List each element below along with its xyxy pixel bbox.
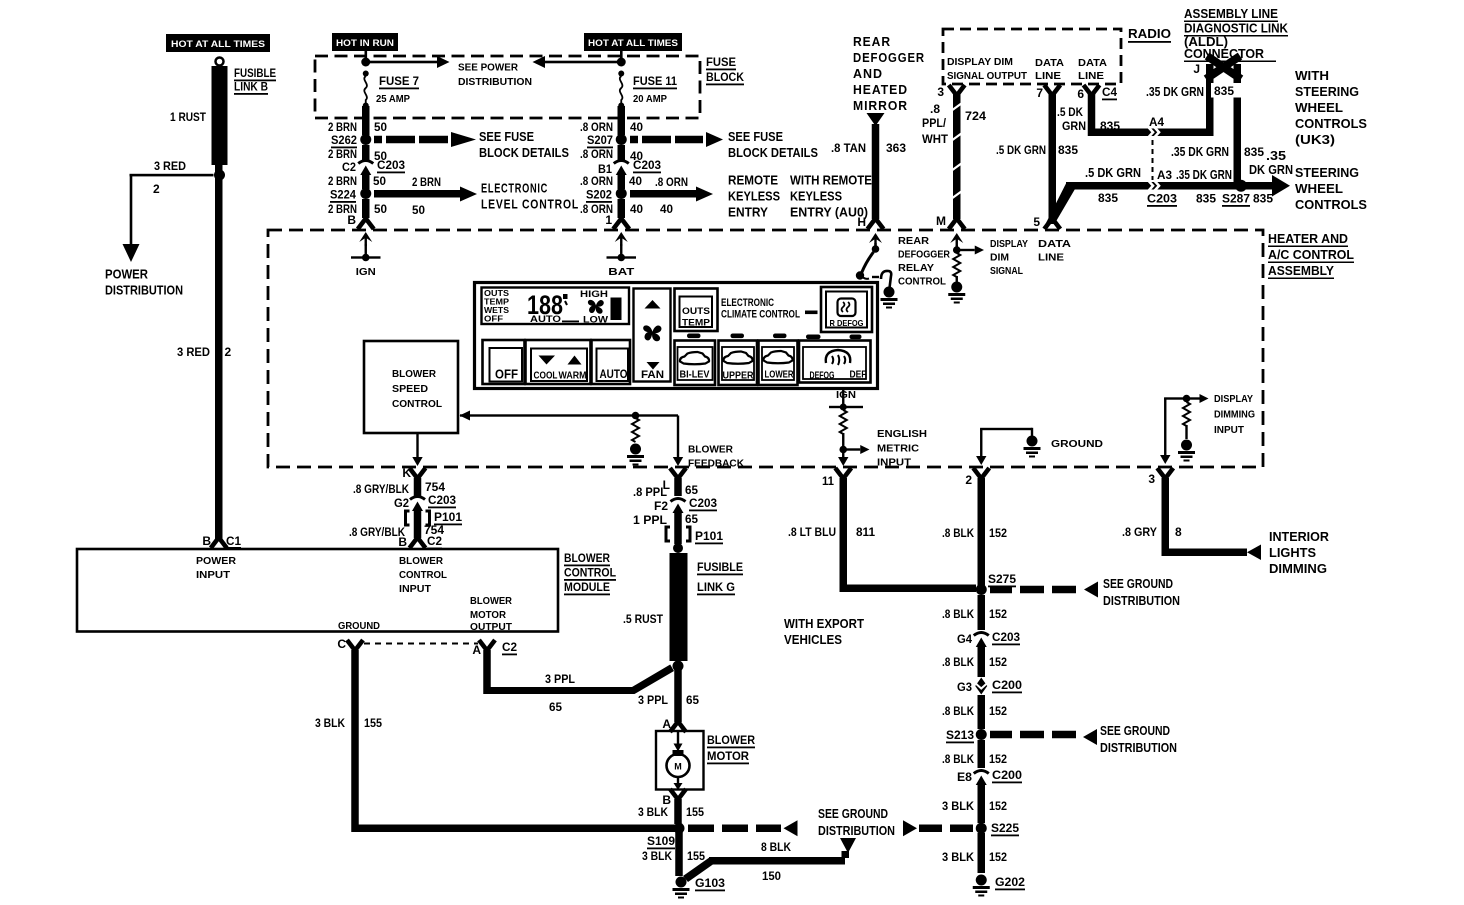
resistor english metric bbox=[840, 410, 847, 434]
svg-text:40: 40 bbox=[660, 202, 673, 216]
OFF button bbox=[483, 340, 525, 384]
terminal arrow M inside bbox=[950, 233, 963, 247]
svg-text:754: 754 bbox=[425, 480, 445, 494]
svg-text:20 AMP: 20 AMP bbox=[633, 93, 667, 105]
ALDL right leg bbox=[1234, 64, 1242, 183]
wire down to power distribution arrow bbox=[130, 175, 133, 244]
dashed wire to see ground distribution (left side) bbox=[688, 820, 798, 836]
svg-text:2: 2 bbox=[153, 182, 160, 196]
svg-text:3 BLK: 3 BLK bbox=[315, 716, 345, 730]
display dimming input lead bbox=[1164, 398, 1166, 455]
svg-text:ENGLISH: ENGLISH bbox=[877, 428, 927, 440]
wire down to pin 11 bbox=[842, 452, 844, 459]
wire panel to english metric bbox=[842, 389, 844, 406]
svg-text:A3: A3 bbox=[1157, 168, 1172, 182]
arrow to display dim signal bbox=[957, 249, 975, 251]
svg-text:BLOWER: BLOWER bbox=[399, 555, 443, 567]
AUTO button bbox=[592, 340, 631, 384]
fuse F11 symbol bbox=[618, 71, 624, 109]
svg-text:.8 GRY: .8 GRY bbox=[1122, 525, 1157, 539]
svg-text:SEE FUSE: SEE FUSE bbox=[728, 129, 783, 144]
svg-text:152: 152 bbox=[989, 655, 1007, 669]
svg-text:C203: C203 bbox=[689, 496, 717, 510]
svg-text:G4: G4 bbox=[957, 632, 972, 646]
diagonal from G103 wire to 150 wire bbox=[683, 857, 715, 882]
svg-text:.8 LT BLU: .8 LT BLU bbox=[788, 525, 836, 539]
label 835 white box on right leg bbox=[1211, 83, 1244, 98]
ALDL connector X symbol bbox=[1206, 56, 1241, 79]
svg-text:COOL: COOL bbox=[534, 371, 558, 382]
wire motor to S109 bbox=[674, 799, 682, 824]
junction S202 bbox=[616, 188, 627, 199]
svg-text:BLOWER: BLOWER bbox=[470, 595, 512, 607]
svg-text:50: 50 bbox=[374, 202, 387, 216]
svg-text:BLOWER: BLOWER bbox=[392, 368, 436, 380]
svg-text:FUSE 11: FUSE 11 bbox=[633, 74, 677, 88]
wire G3 to S213 bbox=[978, 695, 986, 729]
terminal arrow BAT bbox=[615, 232, 628, 246]
arrow out of motor bbox=[677, 777, 679, 786]
svg-text:GROUND: GROUND bbox=[338, 620, 380, 632]
arrowhead to steering wheel controls bbox=[1272, 175, 1290, 197]
wire S275 to G4 bbox=[978, 595, 986, 630]
svg-text:SEE GROUND: SEE GROUND bbox=[1103, 576, 1173, 591]
wire 11 down and right to S275 bbox=[840, 478, 977, 592]
svg-text:METRIC: METRIC bbox=[877, 443, 919, 455]
svg-text:3: 3 bbox=[937, 85, 944, 99]
svg-text:SIGNAL: SIGNAL bbox=[990, 265, 1023, 277]
svg-text:HIGH: HIGH bbox=[580, 289, 608, 300]
svg-text:INPUT: INPUT bbox=[196, 569, 231, 581]
blower speed control box bbox=[364, 341, 458, 433]
arrow speed control down to K bbox=[416, 433, 418, 458]
svg-text:DIMMING: DIMMING bbox=[1214, 409, 1255, 421]
wire bbox=[674, 512, 682, 544]
label ELECTRONIC CLIMATE CONTROL bbox=[721, 297, 818, 321]
connector G3 C200 bbox=[975, 678, 987, 695]
radio dashed box bbox=[943, 29, 1121, 84]
label DATA LINE inside box bbox=[1038, 238, 1071, 264]
wire data line 6 down then right to ALDL bbox=[1088, 94, 1206, 136]
svg-text:835: 835 bbox=[1058, 143, 1078, 157]
svg-text:.8 BLK: .8 BLK bbox=[942, 655, 974, 669]
display fan flower bbox=[588, 300, 604, 314]
svg-text:SIGNAL OUTPUT: SIGNAL OUTPUT bbox=[947, 70, 1028, 82]
svg-text:C4: C4 bbox=[1102, 85, 1117, 99]
svg-text:1 PPL: 1 PPL bbox=[633, 513, 667, 527]
labels .8 PPL/ WHT bbox=[922, 102, 949, 146]
svg-text:DATA: DATA bbox=[1078, 57, 1107, 69]
svg-text:835: 835 bbox=[1100, 119, 1120, 133]
svg-text:DISPLAY: DISPLAY bbox=[990, 238, 1028, 250]
svg-text:AUTO: AUTO bbox=[530, 314, 561, 325]
svg-text:C200: C200 bbox=[992, 768, 1022, 782]
wire S213 to E8 bbox=[978, 740, 986, 768]
svg-text:SEE GROUND: SEE GROUND bbox=[1100, 723, 1170, 738]
connector C2 C203 bbox=[358, 161, 373, 176]
junction S262 bbox=[360, 134, 371, 145]
svg-text:7: 7 bbox=[1036, 86, 1043, 100]
svg-text:8: 8 bbox=[1175, 525, 1182, 539]
svg-text:F2: F2 bbox=[654, 499, 668, 513]
wire C2 to S224 bbox=[362, 175, 370, 189]
terminal circle bbox=[216, 58, 224, 66]
svg-text:2 BRN: 2 BRN bbox=[328, 147, 357, 161]
svg-text:HOT AT ALL TIMES: HOT AT ALL TIMES bbox=[171, 39, 265, 50]
junction dot bbox=[872, 245, 880, 253]
connector G4 C203 bbox=[974, 633, 989, 648]
label INTERIOR LIGHTS DIMMING bbox=[1269, 529, 1330, 576]
connector A3 C203 bbox=[1148, 180, 1159, 191]
ground at relay bbox=[881, 287, 898, 309]
svg-text:A4: A4 bbox=[1149, 115, 1164, 129]
connector A4 bbox=[1148, 127, 1159, 138]
connector V at box edge bbox=[868, 219, 884, 230]
svg-text:INPUT: INPUT bbox=[399, 583, 432, 595]
svg-text:MIRROR: MIRROR bbox=[853, 98, 908, 113]
wire to electronic level control bbox=[374, 187, 477, 202]
connector V at box edge M bbox=[949, 219, 965, 230]
label DISPLAY DIMMING INPUT bbox=[1214, 393, 1255, 436]
svg-text:152: 152 bbox=[989, 799, 1007, 813]
svg-text:C2: C2 bbox=[502, 640, 517, 654]
wire G4 to G3 bbox=[978, 647, 986, 677]
display window bbox=[482, 288, 630, 325]
svg-text:FUSIBLE: FUSIBLE bbox=[234, 66, 276, 80]
svg-text:RELAY: RELAY bbox=[898, 262, 934, 274]
svg-text:WITH REMOTE: WITH REMOTE bbox=[790, 173, 872, 188]
blower motor box bbox=[656, 731, 704, 790]
svg-text:.8 GRY/BLK: .8 GRY/BLK bbox=[353, 482, 409, 496]
svg-text:S262: S262 bbox=[331, 133, 357, 147]
svg-text:KEYLESS: KEYLESS bbox=[728, 189, 780, 204]
svg-text:(UK3): (UK3) bbox=[1295, 132, 1335, 147]
display level bar bbox=[611, 298, 622, 321]
svg-text:SPEED: SPEED bbox=[392, 383, 428, 395]
climate control panel outer box bbox=[475, 283, 878, 389]
connector V below edge L bbox=[670, 468, 686, 479]
svg-text:ELECTRONIC: ELECTRONIC bbox=[721, 297, 774, 309]
svg-text:25 AMP: 25 AMP bbox=[376, 93, 410, 105]
label DISPLAY DIM SIGNAL bbox=[990, 238, 1028, 277]
svg-text:MOTOR: MOTOR bbox=[470, 609, 506, 621]
svg-text:WITH EXPORT: WITH EXPORT bbox=[784, 616, 864, 631]
svg-text:.8 ORN: .8 ORN bbox=[580, 120, 613, 134]
svg-text:ASSEMBLY LINE: ASSEMBLY LINE bbox=[1184, 6, 1278, 21]
wire dashed to see fuse block details bbox=[630, 132, 723, 147]
ALDL left leg bbox=[1206, 64, 1214, 136]
wire data line 7 down to 5 bbox=[1049, 94, 1057, 218]
svg-text:PPL/: PPL/ bbox=[922, 116, 947, 130]
svg-text:INTERIOR: INTERIOR bbox=[1269, 529, 1330, 544]
svg-text:DISTRIBUTION: DISTRIBUTION bbox=[458, 76, 532, 88]
big dashed box bbox=[268, 230, 1263, 467]
svg-text:3 BLK: 3 BLK bbox=[942, 799, 974, 813]
svg-text:811: 811 bbox=[856, 525, 875, 539]
blower motor output wire A down right and diagonal up to link G bbox=[483, 650, 674, 694]
svg-text:724: 724 bbox=[965, 109, 986, 123]
terminal arrow IGN bbox=[359, 232, 372, 246]
svg-text:B: B bbox=[347, 213, 356, 227]
svg-text:BLOWER: BLOWER bbox=[707, 733, 755, 747]
ground lead middle bbox=[980, 429, 982, 456]
switch lever bbox=[862, 252, 874, 273]
svg-text:835: 835 bbox=[1196, 192, 1216, 206]
svg-text:11: 11 bbox=[822, 474, 834, 488]
wire E8 to S225 bbox=[978, 785, 986, 823]
svg-text:CONTROL: CONTROL bbox=[399, 569, 448, 581]
feedback wire down to L bbox=[677, 416, 679, 458]
svg-text:B: B bbox=[398, 535, 407, 549]
junction dot above link G bbox=[673, 543, 683, 553]
svg-text:S224: S224 bbox=[330, 188, 356, 202]
blower control module box bbox=[77, 549, 558, 632]
svg-text:363: 363 bbox=[886, 141, 906, 155]
wire S202 down to box edge bbox=[618, 199, 626, 218]
blower feedback line into speed control bbox=[460, 414, 678, 416]
label FUSE 7 / 25 AMP bbox=[376, 74, 419, 105]
svg-text:REAR: REAR bbox=[853, 34, 891, 49]
diagonal branch from 5 up to steering line bbox=[1046, 183, 1076, 225]
arrowhead power distribution bbox=[123, 244, 140, 262]
arrowhead left bbox=[533, 56, 546, 68]
svg-text:POWER: POWER bbox=[196, 555, 236, 567]
svg-text:G202: G202 bbox=[995, 875, 1025, 889]
svg-text:DEFOG: DEFOG bbox=[810, 371, 835, 382]
svg-text:DATA: DATA bbox=[1038, 238, 1071, 250]
svg-text:REMOTE: REMOTE bbox=[728, 173, 778, 188]
svg-text:STEERING: STEERING bbox=[1295, 84, 1359, 99]
resistor below M bbox=[953, 253, 960, 277]
svg-text:.5 DK GRN: .5 DK GRN bbox=[996, 143, 1046, 157]
label FUSE 11 / 20 AMP bbox=[633, 74, 677, 105]
BI-LEV button bbox=[675, 341, 716, 386]
ground G103 bbox=[673, 877, 690, 899]
label BLOWER CONTROL MODULE bbox=[564, 551, 616, 595]
svg-text:CONTROLS: CONTROLS bbox=[1295, 197, 1367, 212]
junction S287 bbox=[1235, 180, 1247, 192]
svg-text:BI-LEV: BI-LEV bbox=[680, 370, 710, 381]
svg-text:OFF: OFF bbox=[484, 314, 503, 324]
svg-text:.8 BLK: .8 BLK bbox=[942, 704, 974, 718]
svg-text:DEFOGGER: DEFOGGER bbox=[853, 50, 925, 65]
svg-text:INPUT: INPUT bbox=[1214, 424, 1245, 436]
ground below feedback resistor bbox=[627, 444, 644, 466]
svg-text:.5 RUST: .5 RUST bbox=[623, 612, 664, 626]
wire fuse11 to S207 bbox=[618, 106, 626, 135]
svg-text:B: B bbox=[202, 534, 211, 548]
svg-text:OUTS: OUTS bbox=[682, 306, 710, 317]
svg-text:IGN: IGN bbox=[356, 267, 376, 278]
label FUSE BLOCK bbox=[706, 55, 744, 85]
svg-text:155: 155 bbox=[687, 849, 705, 863]
connector G2 C203 bbox=[410, 497, 425, 512]
junction S207 bbox=[616, 134, 627, 145]
svg-text:E8: E8 bbox=[957, 770, 972, 784]
label WITH EXPORT VEHICLES bbox=[784, 616, 864, 647]
svg-text:.8 BLK: .8 BLK bbox=[942, 526, 974, 540]
svg-text:152: 152 bbox=[989, 704, 1007, 718]
relay hook bbox=[881, 271, 891, 288]
svg-text:.8 ORN: .8 ORN bbox=[580, 174, 613, 188]
svg-text:OUTPUT: OUTPUT bbox=[470, 621, 513, 633]
svg-text:LINE: LINE bbox=[1038, 252, 1064, 264]
label STEERING WHEEL CONTROLS bbox=[1295, 165, 1367, 212]
svg-text:50: 50 bbox=[373, 174, 386, 188]
svg-text:1: 1 bbox=[605, 213, 612, 227]
svg-text:155: 155 bbox=[364, 716, 382, 730]
svg-text:LEVEL CONTROL: LEVEL CONTROL bbox=[481, 197, 579, 212]
switch contact dot bbox=[856, 271, 864, 279]
steering wheel controls wire bbox=[1066, 182, 1272, 190]
svg-text:MOTOR: MOTOR bbox=[707, 749, 749, 763]
svg-text:HEATER AND: HEATER AND bbox=[1268, 231, 1348, 246]
svg-text:65: 65 bbox=[686, 693, 699, 707]
wire K down bbox=[414, 478, 422, 496]
label WITH STEERING WHEEL CONTROLS (UK3) bbox=[1295, 68, 1367, 147]
wire 3 down and right to interior lights dimming bbox=[1162, 478, 1248, 556]
svg-text:S207: S207 bbox=[587, 133, 613, 147]
label SEE FUSE BLOCK DETAILS bbox=[479, 129, 569, 160]
svg-text:C203: C203 bbox=[1147, 192, 1177, 206]
wire .8 PPL/WHT striped down to M bbox=[951, 94, 962, 219]
svg-text:IGN: IGN bbox=[836, 389, 856, 401]
svg-text:835: 835 bbox=[1098, 191, 1118, 205]
svg-text:FAN: FAN bbox=[641, 369, 664, 381]
wire to remote keyless entry bbox=[630, 187, 713, 202]
svg-text:2 BRN: 2 BRN bbox=[412, 175, 441, 189]
svg-text:6: 6 bbox=[1077, 87, 1084, 101]
svg-text:HEATED: HEATED bbox=[853, 82, 908, 97]
svg-text:R DEFOG: R DEFOG bbox=[830, 318, 864, 328]
svg-text:RADIO: RADIO bbox=[1128, 26, 1171, 41]
label SEE GROUND DISTRIBUTION bbox=[818, 806, 895, 838]
svg-text:FEEDBACK: FEEDBACK bbox=[688, 458, 744, 470]
svg-text:LOWER: LOWER bbox=[765, 370, 795, 381]
dashed link to relay bbox=[872, 276, 879, 278]
arrowhead right side toward S225 bbox=[903, 820, 917, 836]
see power distribution arrow line right bbox=[545, 61, 621, 64]
OUTS TEMP button bbox=[675, 289, 718, 332]
label SEE GROUND DISTRIBUTION bbox=[1100, 723, 1177, 755]
label HEATER AND A/C CONTROL ASSEMBLY bbox=[1268, 231, 1354, 279]
svg-text:S213: S213 bbox=[946, 728, 974, 742]
label WITH REMOTE KEYLESS ENTRY (AU0) bbox=[790, 173, 872, 220]
connector F2 C203 bbox=[671, 499, 686, 514]
label REAR DEFOGGER AND HEATED MIRROR bbox=[853, 34, 925, 113]
see power distribution arrow line left bbox=[366, 61, 438, 64]
svg-text:C2: C2 bbox=[427, 534, 442, 548]
label box HOT AT ALL TIMES (right) bbox=[584, 33, 682, 51]
svg-text:40: 40 bbox=[630, 120, 643, 134]
svg-text:3 RED: 3 RED bbox=[154, 159, 186, 173]
arrowhead interior lights dimming bbox=[1247, 545, 1261, 561]
svg-text:DIM: DIM bbox=[990, 252, 1009, 264]
svg-text:C200: C200 bbox=[992, 678, 1022, 692]
svg-text:.8 PPL: .8 PPL bbox=[633, 485, 667, 499]
svg-text:C203: C203 bbox=[377, 158, 405, 172]
dashed line C to A bbox=[364, 643, 478, 645]
ground symbol middle bbox=[1024, 436, 1041, 458]
svg-text:.8 BLK: .8 BLK bbox=[942, 752, 974, 766]
svg-text:BLOWER: BLOWER bbox=[688, 444, 733, 456]
terminal arrow H inside bbox=[869, 233, 882, 247]
svg-text:LINE: LINE bbox=[1078, 70, 1104, 82]
svg-text:835: 835 bbox=[1214, 84, 1234, 98]
svg-text:KEYLESS: KEYLESS bbox=[790, 189, 842, 204]
svg-text:ENTRY (AU0): ENTRY (AU0) bbox=[790, 205, 868, 220]
svg-text:S109: S109 bbox=[647, 834, 675, 848]
junction S109 bbox=[674, 823, 685, 834]
svg-text:DIMMING: DIMMING bbox=[1269, 561, 1327, 576]
fusible link G bar bbox=[670, 553, 688, 661]
svg-text:3 BLK: 3 BLK bbox=[642, 849, 672, 863]
svg-text:C203: C203 bbox=[992, 630, 1020, 644]
wire dashed to see fuse block details bbox=[374, 132, 476, 147]
wire S207 to B1 bbox=[618, 145, 626, 161]
svg-text:152: 152 bbox=[989, 850, 1007, 864]
svg-text:REAR: REAR bbox=[898, 235, 929, 247]
svg-text:152: 152 bbox=[989, 752, 1007, 766]
junction dot on feedback bbox=[632, 412, 640, 420]
svg-text:ELECTRONIC: ELECTRONIC bbox=[481, 181, 548, 196]
junction node fuse 7 top bbox=[361, 58, 370, 67]
wire 2 down to S275 bbox=[978, 478, 986, 586]
svg-text:.5 DK GRN: .5 DK GRN bbox=[1085, 165, 1141, 180]
junction dot below link G bbox=[673, 661, 684, 672]
junction dot display dim bbox=[953, 246, 961, 254]
svg-text:HOT AT ALL TIMES: HOT AT ALL TIMES bbox=[588, 38, 678, 49]
connector V at box edge bbox=[358, 219, 374, 230]
svg-text:LOW: LOW bbox=[583, 315, 608, 326]
ground below display dimming resistor bbox=[1178, 440, 1195, 462]
svg-text:DISPLAY: DISPLAY bbox=[1214, 393, 1253, 405]
arrow to english metric input bbox=[843, 448, 860, 450]
svg-text:S275: S275 bbox=[988, 572, 1016, 586]
svg-text:GROUND: GROUND bbox=[1051, 438, 1103, 450]
connector B1 C203 bbox=[614, 161, 629, 176]
rear defogger relay switch wire bbox=[874, 243, 876, 247]
svg-text:C203: C203 bbox=[633, 158, 661, 172]
svg-text:C203: C203 bbox=[428, 493, 456, 507]
arrowhead right bbox=[437, 56, 450, 68]
svg-text:S225: S225 bbox=[991, 821, 1019, 835]
motor M circle bbox=[673, 750, 684, 756]
ground G202 bbox=[973, 875, 990, 897]
label BLOWER CONTROL INPUT bbox=[399, 555, 448, 595]
svg-text:BLOCK DETAILS: BLOCK DETAILS bbox=[479, 145, 569, 160]
label FUSIBLE LINK G bbox=[697, 560, 743, 595]
svg-text:3 PPL: 3 PPL bbox=[545, 672, 575, 686]
wire horizontal to power distribution bbox=[130, 174, 214, 177]
svg-text:UPPER: UPPER bbox=[723, 371, 755, 382]
wire S109 down to G103 bbox=[675, 832, 683, 876]
svg-text:POWER: POWER bbox=[105, 267, 149, 282]
svg-text:WITH: WITH bbox=[1295, 68, 1329, 83]
svg-text:AND: AND bbox=[853, 66, 883, 81]
svg-text:835: 835 bbox=[1253, 192, 1273, 206]
ground wire C down and right to S109 bbox=[351, 650, 675, 832]
svg-text:H: H bbox=[857, 215, 866, 229]
LOWER button bbox=[759, 341, 798, 386]
label DISPLAY DIM SIGNAL OUTPUT bbox=[947, 56, 1028, 82]
svg-text:2 BRN: 2 BRN bbox=[328, 120, 357, 134]
wire bbox=[414, 510, 422, 538]
junction dot english metric bbox=[839, 446, 847, 454]
svg-text:DISTRIBUTION: DISTRIBUTION bbox=[1103, 593, 1180, 608]
svg-text:S287: S287 bbox=[1222, 192, 1250, 206]
svg-text:OFF: OFF bbox=[495, 368, 518, 382]
